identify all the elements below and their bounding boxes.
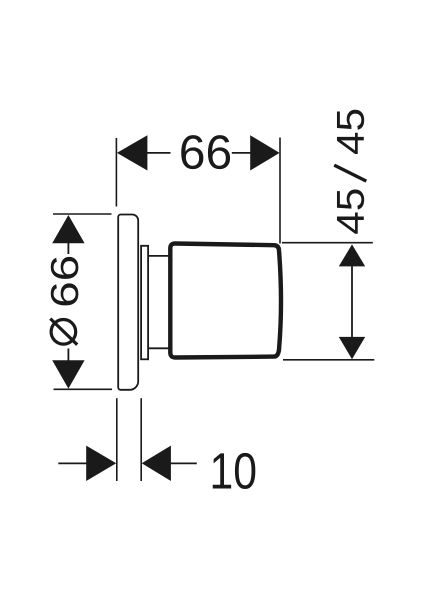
label 45/45 slash bbox=[334, 165, 366, 181]
dimension D66 up arrowhead bbox=[52, 215, 84, 243]
dimension 10 left tail line bbox=[58, 462, 87, 464]
label 45/45 upper 45 (rotated) bbox=[337, 110, 364, 154]
dimension 10 right extension line bbox=[140, 398, 142, 481]
label 45/45 lower 45 (rotated) bbox=[337, 189, 364, 233]
handle knob (thick outline) bbox=[170, 244, 281, 358]
dimension 66 left arrowhead bbox=[117, 135, 147, 170]
dimension 45/45 up arrowhead bbox=[339, 244, 365, 266]
dimension 10 left extension line bbox=[116, 398, 118, 481]
dimension 10 right tail line bbox=[171, 462, 197, 464]
dimension 10 right-pointing arrowhead bbox=[86, 446, 116, 481]
dimension D66 bottom extension line bbox=[54, 388, 113, 390]
escutcheon plate (wall rosette, side view) bbox=[118, 215, 138, 390]
dimension D66 top extension line bbox=[53, 213, 112, 215]
dimension 45/45 bottom extension line bbox=[283, 359, 374, 361]
label 66 bbox=[181, 135, 230, 169]
valve stem top line bbox=[148, 255, 171, 257]
dimension 66 line right segment bbox=[232, 152, 251, 154]
dimension 45/45 top extension line bbox=[282, 242, 373, 244]
dimension D66 down arrowhead bbox=[52, 360, 84, 388]
dimension 45/45 line bbox=[351, 266, 353, 337]
dimension D66 lower connector line bbox=[67, 349, 69, 362]
valve stem bottom line bbox=[148, 347, 171, 349]
label 10 bbox=[213, 453, 256, 489]
label D66 diameter symbol slash bbox=[50, 319, 77, 345]
dimension 66 line left segment bbox=[147, 152, 171, 154]
adapter sleeve (step behind handle) bbox=[141, 246, 148, 359]
dimension 66 right arrowhead bbox=[250, 135, 279, 170]
dimension 10 left-pointing arrowhead bbox=[142, 446, 171, 481]
label D66 digits 66 (rotated) bbox=[51, 257, 79, 305]
dimension 66 left extension line bbox=[115, 138, 117, 207]
dimension D66 upper connector line bbox=[67, 243, 69, 255]
dimension 45/45 down arrowhead bbox=[339, 337, 365, 359]
dimension 66 right extension line bbox=[279, 138, 281, 244]
label D66 diameter symbol circle bbox=[51, 320, 76, 345]
